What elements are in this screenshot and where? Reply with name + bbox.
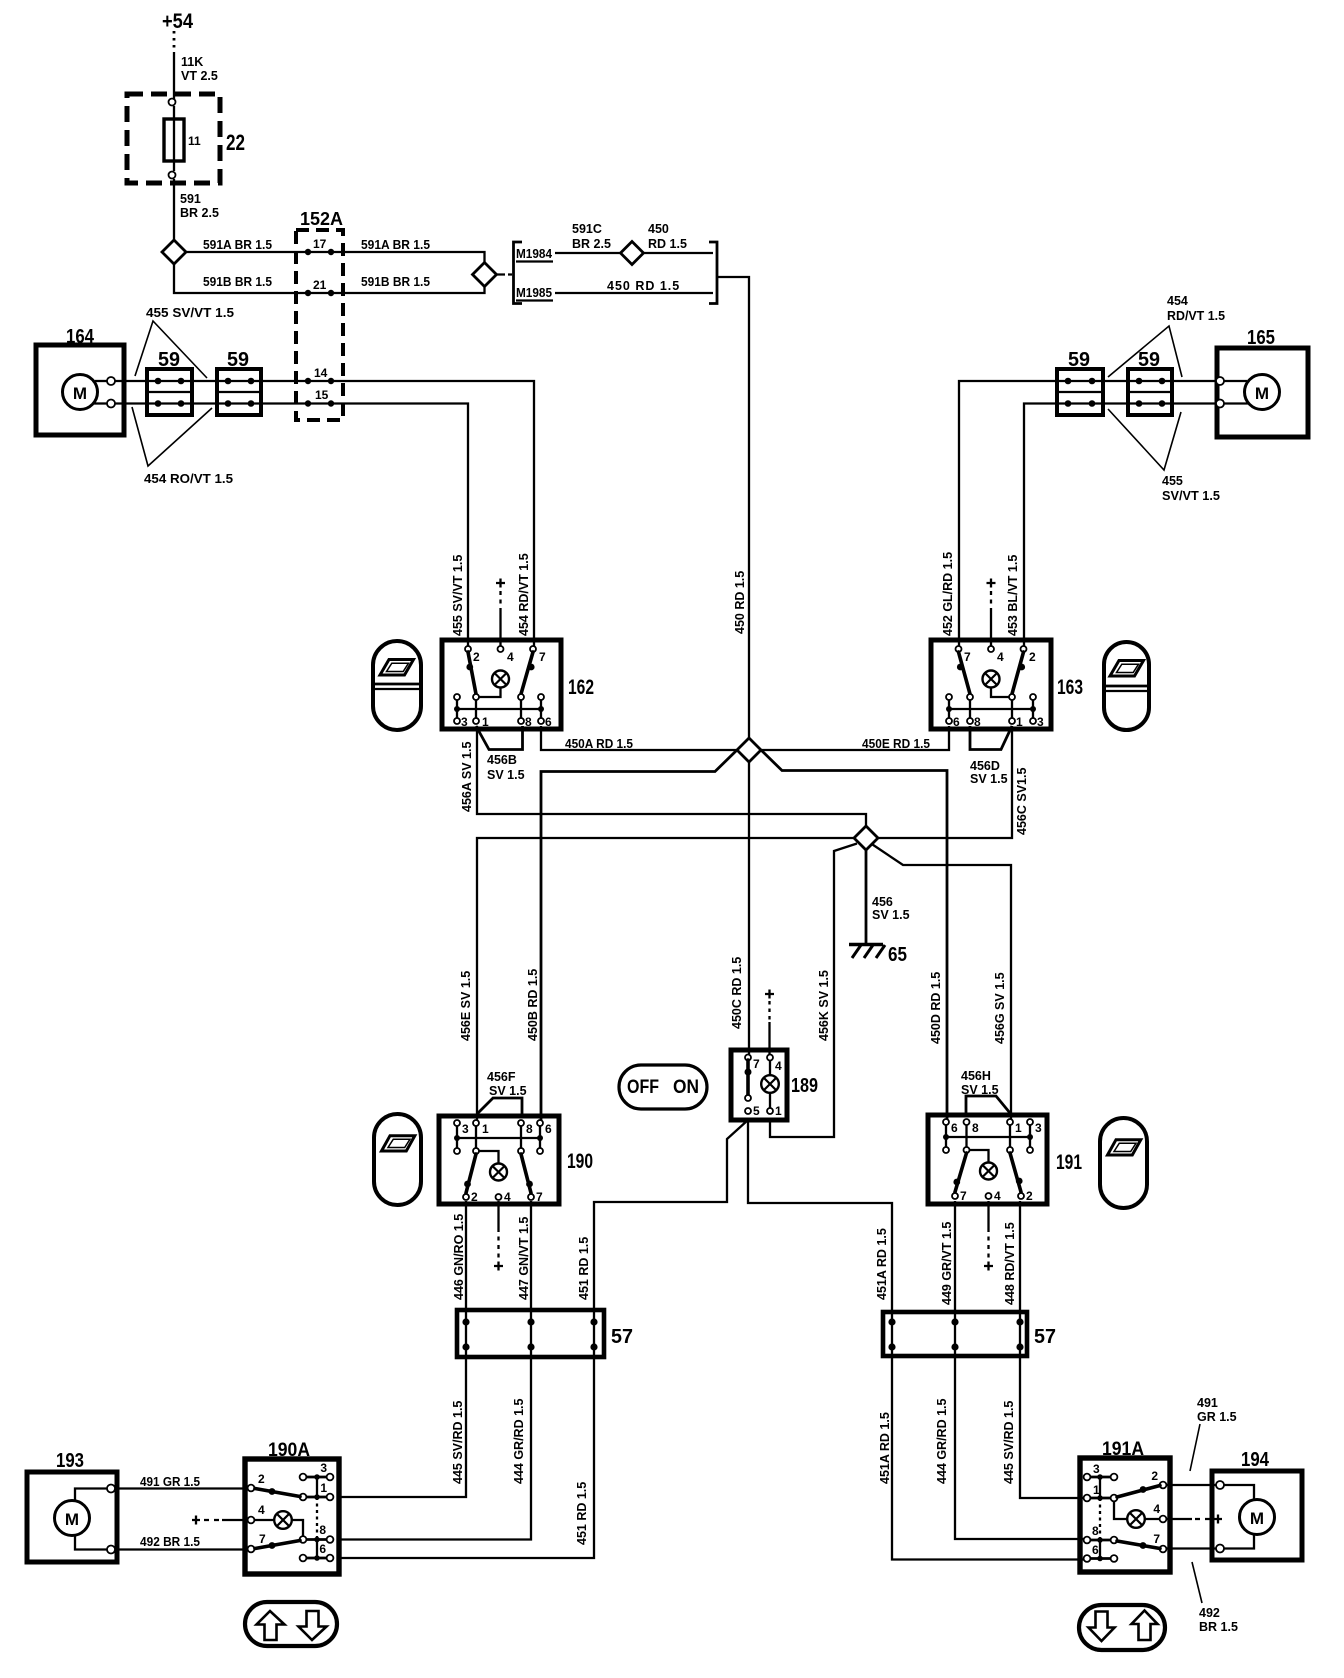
- lamp: [761, 1075, 779, 1093]
- plus feed 191A pin 4: [1166, 1515, 1222, 1524]
- svg-text:455: 455: [1162, 474, 1183, 488]
- switch arm 2: [1010, 1153, 1021, 1192]
- wire 448 RD/VT 1.5 then 445 SV/RD 1.5 (191 pin2 to 191A pin1): [1002, 1201, 1086, 1498]
- svg-text:7: 7: [753, 1057, 760, 1071]
- svg-text:164: 164: [66, 326, 95, 348]
- pin 8: [518, 718, 524, 724]
- wire 456 SV 1.5 to ground: [866, 850, 910, 944]
- wire 450 RD 1.5 main feed: [718, 277, 749, 738]
- pin 5: [745, 1108, 751, 1114]
- wire 591 BR 2.5: [174, 179, 219, 240]
- label 454 RO/VT 1.5 with leader: [132, 407, 233, 486]
- svg-text:22: 22: [226, 130, 245, 155]
- svg-text:3: 3: [320, 1461, 327, 1475]
- pin 7: [248, 1546, 255, 1553]
- wire 452 GL/RD 1.5 right (to 163 pin7): [959, 381, 1216, 646]
- svg-text:8: 8: [974, 715, 981, 729]
- pin 3: [454, 718, 460, 724]
- wire 450B RD 1.5 (node 450 to 190 pin6): [526, 750, 737, 1120]
- switch arm 7: [255, 1541, 300, 1549]
- pin 2: [463, 1194, 469, 1200]
- plus feed above 163 pin 4: [987, 579, 996, 647]
- svg-text:M: M: [1250, 1509, 1264, 1528]
- svg-text:444 GR/RD 1.5: 444 GR/RD 1.5: [512, 1398, 526, 1484]
- svg-text:451A RD 1.5: 451A RD 1.5: [875, 1228, 889, 1300]
- svg-text:1: 1: [482, 715, 489, 729]
- svg-text:6: 6: [1092, 1543, 1099, 1557]
- switch arm 2: [466, 1154, 476, 1193]
- svg-text:8: 8: [1092, 1524, 1099, 1538]
- svg-text:591B BR 1.5: 591B BR 1.5: [361, 275, 430, 289]
- svg-text:450 RD 1.5: 450 RD 1.5: [733, 571, 747, 634]
- svg-text:2: 2: [1026, 1189, 1033, 1203]
- pin 1: [1084, 1495, 1091, 1502]
- window up/down icon left: [245, 1602, 337, 1646]
- wire 447 GN/VT 1.5 then 444 GR/RD 1.5 (190 pin7 to 190A pin8): [340, 1201, 531, 1540]
- svg-text:591A BR 1.5: 591A BR 1.5: [203, 238, 272, 252]
- wire 456H SV 1.5 jumper (191 pin8-pin1): [961, 1069, 1010, 1113]
- svg-text:452 GL/RD 1.5: 452 GL/RD 1.5: [941, 552, 955, 636]
- pin 7: [530, 646, 536, 652]
- svg-text:7: 7: [539, 650, 546, 664]
- motor 164: [36, 326, 124, 435]
- svg-text:3: 3: [1035, 1121, 1042, 1135]
- junction diamond 450: [737, 738, 761, 762]
- pin 7: [952, 1193, 958, 1199]
- switch arm 2: [468, 652, 476, 694]
- svg-text:454: 454: [1167, 294, 1188, 308]
- contact row: [454, 1148, 460, 1154]
- wire 449 GR/VT 1.5 then 444 GR/RD 1.5 (191 pin7 to 191A pin8): [935, 1201, 1086, 1539]
- internal bus: [457, 1137, 540, 1139]
- svg-text:8: 8: [972, 1121, 979, 1135]
- wire 451A RD 1.5 (189 pin5 to right 57): [748, 1120, 892, 1312]
- svg-text:59: 59: [227, 349, 249, 371]
- svg-text:57: 57: [1034, 1326, 1056, 1348]
- svg-text:491: 491: [1197, 1396, 1218, 1410]
- wire 451 RD 1.5 (189 pin5 to left 57): [577, 1120, 748, 1312]
- wire 451A RD 1.5 lower (to 191A pin6): [878, 1312, 1086, 1560]
- wire stub to M1984 bracket: [497, 273, 513, 275]
- wire 456B SV 1.5 jumper (162 pin1-pin8): [476, 726, 525, 782]
- svg-text:M1985: M1985: [516, 285, 552, 300]
- svg-text:449 GR/VT 1.5: 449 GR/VT 1.5: [940, 1222, 954, 1305]
- svg-text:591A BR 1.5: 591A BR 1.5: [361, 238, 430, 252]
- svg-text:445 SV/RD 1.5: 445 SV/RD 1.5: [451, 1401, 465, 1484]
- svg-text:6: 6: [319, 1542, 326, 1556]
- label 454 RD/VT 1.5 right with leader: [1108, 294, 1225, 377]
- svg-text:57: 57: [611, 1326, 633, 1348]
- svg-text:GR 1.5: GR 1.5: [1197, 1410, 1237, 1424]
- connector 57 left: [457, 1310, 633, 1357]
- svg-text:4: 4: [775, 1059, 782, 1073]
- svg-text:6: 6: [545, 1122, 552, 1136]
- svg-text:450C RD 1.5: 450C RD 1.5: [730, 957, 744, 1029]
- pin 4: [1160, 1516, 1167, 1523]
- svg-text:RD 1.5: RD 1.5: [648, 237, 687, 251]
- wire 456C SV 1.5 (163 pin1 to node 456): [878, 726, 1029, 838]
- svg-text:BR 2.5: BR 2.5: [572, 237, 611, 251]
- contact row: [454, 694, 460, 700]
- internal bus: [946, 1136, 1030, 1138]
- svg-text:2: 2: [473, 650, 480, 664]
- splice bracket M1984/M1985: [514, 242, 718, 304]
- pin 4: [986, 1193, 992, 1199]
- wire 450E RD 1.5 (163 pin6 to node 450): [761, 726, 949, 751]
- svg-text:14: 14: [314, 366, 328, 380]
- pin 1: [1009, 718, 1015, 724]
- svg-text:+54: +54: [162, 10, 193, 33]
- svg-text:M: M: [73, 384, 87, 403]
- svg-text:447 GN/VT 1.5: 447 GN/VT 1.5: [517, 1217, 531, 1300]
- window icon 163: [1104, 642, 1149, 730]
- ground 65: [849, 944, 907, 966]
- svg-text:2: 2: [1029, 650, 1036, 664]
- svg-text:456A SV 1.5: 456A SV 1.5: [460, 742, 474, 812]
- svg-text:15: 15: [315, 388, 329, 402]
- plus feed below 191 pin 4: [984, 1201, 993, 1271]
- pin 21: [305, 290, 311, 296]
- pin 4: [248, 1517, 255, 1524]
- svg-text:491 GR 1.5: 491 GR 1.5: [140, 1475, 200, 1489]
- svg-text:163: 163: [1057, 676, 1083, 699]
- window icon 162: [373, 641, 421, 730]
- svg-text:8: 8: [525, 715, 532, 729]
- svg-text:BR 1.5: BR 1.5: [1199, 1620, 1238, 1634]
- svg-text:VT 2.5: VT 2.5: [181, 69, 218, 83]
- svg-text:6: 6: [545, 715, 552, 729]
- pin 2: [1021, 646, 1027, 652]
- pin 6: [538, 718, 544, 724]
- svg-text:2: 2: [258, 1472, 265, 1486]
- svg-text:454 RO/VT 1.5: 454 RO/VT 1.5: [144, 472, 233, 486]
- svg-text:M: M: [65, 1510, 79, 1529]
- svg-text:21: 21: [313, 278, 327, 292]
- row links: [1090, 1477, 1111, 1559]
- svg-text:451 RD 1.5: 451 RD 1.5: [577, 1237, 591, 1300]
- switch arm 7: [959, 652, 971, 694]
- svg-text:2: 2: [471, 1190, 478, 1204]
- svg-text:1: 1: [482, 1122, 489, 1136]
- lamp: [980, 1163, 997, 1180]
- svg-text:7: 7: [536, 1190, 543, 1204]
- junction diamond 456: [854, 826, 878, 850]
- svg-text:OFF: OFF: [627, 1077, 659, 1098]
- svg-text:6: 6: [951, 1121, 958, 1135]
- lamp: [274, 1511, 292, 1529]
- svg-text:59: 59: [1068, 349, 1090, 371]
- svg-text:191A: 191A: [1102, 1439, 1144, 1460]
- connector 59 left A: [147, 349, 192, 415]
- svg-text:4: 4: [1153, 1502, 1160, 1516]
- pin 6: [537, 1120, 543, 1126]
- connector 59 left B: [217, 349, 261, 415]
- svg-text:1: 1: [1015, 1121, 1022, 1135]
- motor 165: [1216, 327, 1308, 437]
- pin 4: [498, 646, 504, 652]
- wire 450 RD 1.5 upper: [644, 222, 714, 253]
- svg-text:4: 4: [994, 1189, 1001, 1203]
- motor 194: [1212, 1449, 1302, 1560]
- wire 492 BR 1.5 (193 to 190A pin7): [113, 1535, 248, 1550]
- svg-text:SV/VT 1.5: SV/VT 1.5: [1162, 489, 1220, 503]
- wire 454 RD/VT 1.5 left (pin14 row to 162 pin7): [115, 381, 534, 646]
- svg-text:RD/VT 1.5: RD/VT 1.5: [1167, 309, 1225, 323]
- plus feed above 162 pin 4: [496, 579, 505, 647]
- label 492 BR 1.5 with leader: [1192, 1562, 1238, 1634]
- internal bus: [949, 708, 1033, 710]
- svg-text:8: 8: [319, 1523, 326, 1537]
- junction diamond 591A/591B: [473, 263, 497, 287]
- wire 450C RD 1.5 (node 450 to 189 pin7): [730, 762, 749, 1054]
- lamp: [983, 671, 1000, 688]
- svg-text:SV 1.5: SV 1.5: [970, 772, 1008, 786]
- wire 591C BR 2.5: [555, 222, 621, 253]
- OFF ON indicator: [619, 1065, 707, 1109]
- svg-text:8: 8: [526, 1122, 533, 1136]
- pin 6: [327, 1555, 334, 1562]
- svg-text:456G SV 1.5: 456G SV 1.5: [993, 972, 1007, 1044]
- contact row: [943, 1147, 949, 1153]
- wire 456E SV 1.5 (node 456 to 190 pin1): [459, 838, 854, 1120]
- window icon 191: [1100, 1118, 1147, 1208]
- svg-text:11: 11: [188, 134, 201, 148]
- svg-text:SV 1.5: SV 1.5: [489, 1084, 527, 1098]
- wire 456K SV 1.5 (node 456 to 189 pin1): [770, 844, 857, 1138]
- lamp: [492, 671, 509, 688]
- svg-text:456C SV1.5: 456C SV1.5: [1015, 768, 1029, 835]
- pin 3: [1084, 1474, 1091, 1481]
- wire 456F SV 1.5 jumper (190 pin1-pin8): [477, 1070, 527, 1114]
- fuse 11 in fusebox 22: [127, 94, 245, 183]
- svg-text:59: 59: [158, 349, 180, 371]
- svg-text:7: 7: [1153, 1532, 1160, 1546]
- switch arm 7: [521, 1154, 531, 1193]
- svg-text:6: 6: [953, 715, 960, 729]
- switch arm 2: [1012, 652, 1024, 694]
- svg-text:456H: 456H: [961, 1069, 991, 1083]
- pin 1: [327, 1494, 334, 1501]
- pin 7: [528, 1194, 534, 1200]
- svg-text:M: M: [1255, 384, 1269, 403]
- internal bus: [457, 708, 541, 710]
- svg-text:ON: ON: [673, 1077, 699, 1098]
- wire 456D SV 1.5 jumper (163 pin1-pin8): [970, 726, 1012, 786]
- svg-text:445 SV/RD 1.5: 445 SV/RD 1.5: [1002, 1401, 1016, 1484]
- svg-text:3: 3: [1093, 1462, 1100, 1476]
- pin 1: [767, 1108, 773, 1114]
- pin 6: [943, 1119, 949, 1125]
- pin 8: [964, 1119, 970, 1125]
- switch 191: [928, 1115, 1082, 1204]
- svg-text:591B BR 1.5: 591B BR 1.5: [203, 275, 272, 289]
- svg-text:17: 17: [313, 237, 327, 251]
- contact circles: [1111, 1474, 1118, 1481]
- svg-text:1: 1: [320, 1481, 327, 1495]
- svg-text:BR 2.5: BR 2.5: [180, 206, 219, 220]
- svg-text:456K SV 1.5: 456K SV 1.5: [817, 970, 831, 1041]
- svg-text:456B: 456B: [487, 753, 517, 767]
- svg-text:190: 190: [567, 1150, 593, 1173]
- svg-text:454 RD/VT 1.5: 454 RD/VT 1.5: [517, 553, 531, 636]
- svg-text:4: 4: [997, 650, 1004, 664]
- svg-text:1: 1: [1016, 715, 1023, 729]
- wire 191A pin2 to motor 194: [1166, 1484, 1216, 1486]
- svg-text:455 SV/VT 1.5: 455 SV/VT 1.5: [146, 306, 234, 320]
- svg-text:193: 193: [56, 1450, 84, 1472]
- svg-text:492: 492: [1199, 1606, 1220, 1620]
- svg-text:456F: 456F: [487, 1070, 516, 1084]
- svg-text:M1984: M1984: [516, 246, 553, 261]
- motor 193: [27, 1450, 117, 1562]
- svg-text:444 GR/RD 1.5: 444 GR/RD 1.5: [935, 1398, 949, 1484]
- switch 190A: [245, 1440, 339, 1574]
- svg-text:2: 2: [1151, 1469, 1158, 1483]
- svg-text:450E RD 1.5: 450E RD 1.5: [862, 737, 930, 751]
- switch 189 interior light/central: [731, 1050, 818, 1120]
- svg-text:7: 7: [259, 1532, 266, 1546]
- svg-text:591C: 591C: [572, 222, 602, 236]
- wire 456A SV 1.5 (162 pin1 to node 456): [460, 726, 866, 826]
- pin 8: [967, 718, 973, 724]
- svg-text:162: 162: [568, 676, 594, 699]
- switch arm: [746, 1060, 750, 1095]
- internal bus: [1099, 1477, 1101, 1559]
- wire 450A RD 1.5 (162 pin6 to node 450): [541, 726, 737, 751]
- wire 11K VT 2.5: [174, 52, 218, 101]
- switch arm 7: [1117, 1541, 1160, 1549]
- pin 4: [496, 1194, 502, 1200]
- svg-text:450A RD 1.5: 450A RD 1.5: [565, 737, 633, 751]
- pin 6: [946, 718, 952, 724]
- window down/up icon right: [1079, 1605, 1165, 1650]
- pin 7: [745, 1055, 751, 1061]
- svg-text:4: 4: [258, 1503, 265, 1517]
- svg-text:450B RD 1.5: 450B RD 1.5: [526, 969, 540, 1041]
- svg-text:4: 4: [504, 1190, 511, 1204]
- connector 59 right C: [1057, 349, 1103, 415]
- wire 591A BR 1.5: [186, 238, 485, 263]
- switch arm 7: [521, 652, 533, 694]
- plus feed 190A pin 4: [192, 1516, 248, 1525]
- pin 17: [305, 249, 311, 255]
- pin 4: [988, 646, 994, 652]
- contact row: [946, 694, 952, 700]
- svg-text:SV 1.5: SV 1.5: [961, 1083, 999, 1097]
- switch 162: [442, 640, 594, 729]
- svg-text:453 BL/VT 1.5: 453 BL/VT 1.5: [1006, 555, 1020, 636]
- wire 453 BL/VT 1.5 right (to 163 pin2): [1024, 404, 1216, 647]
- lamp: [1127, 1510, 1145, 1528]
- switch 190: [439, 1116, 593, 1204]
- svg-text:7: 7: [964, 650, 971, 664]
- wire 450 RD 1.5 (M1985 row): [555, 279, 713, 293]
- wire 456G SV 1.5 (node 456 to 191 pin1): [873, 845, 1012, 1121]
- plus feed below 190 pin 4: [494, 1201, 503, 1271]
- svg-text:455 SV/VT 1.5: 455 SV/VT 1.5: [451, 555, 465, 636]
- svg-text:451A RD 1.5: 451A RD 1.5: [878, 1412, 892, 1484]
- wire 446 GN/RO 1.5 then 445 SV/RD 1.5 (190 pin2 to 190A pin1): [340, 1201, 466, 1497]
- wire 450D RD 1.5 (node 450 to 191 pin6): [761, 750, 947, 1120]
- label 491 GR 1.5 with leader: [1190, 1396, 1237, 1471]
- pin 4: [767, 1055, 773, 1061]
- svg-text:456: 456: [872, 895, 893, 909]
- pin 7: [1160, 1546, 1167, 1553]
- svg-text:456E SV 1.5: 456E SV 1.5: [459, 971, 473, 1041]
- pin 3: [1030, 718, 1036, 724]
- svg-text:189: 189: [791, 1075, 818, 1097]
- svg-text:1: 1: [775, 1104, 782, 1118]
- lamp: [490, 1164, 507, 1181]
- wire 491 GR 1.5 (193 to 190A pin2): [113, 1475, 248, 1489]
- wire 191A pin7 to motor 194: [1166, 1547, 1216, 1549]
- svg-text:65: 65: [888, 944, 907, 966]
- svg-text:3: 3: [1037, 715, 1044, 729]
- connector 59 right D: [1128, 349, 1172, 415]
- pin 2: [248, 1485, 255, 1492]
- connector 57 right: [883, 1312, 1056, 1356]
- pin 3: [454, 1120, 460, 1126]
- contact circles: [300, 1474, 307, 1481]
- svg-text:59: 59: [1138, 349, 1160, 371]
- svg-text:451 RD 1.5: 451 RD 1.5: [575, 1482, 589, 1545]
- pin 3: [1027, 1119, 1033, 1125]
- pin 2: [1160, 1482, 1167, 1489]
- pin 8: [327, 1536, 334, 1543]
- switch 163: [931, 640, 1083, 729]
- pin 7: [956, 646, 962, 652]
- svg-text:7: 7: [960, 1189, 967, 1203]
- junction diamond 591C/450: [621, 242, 644, 265]
- svg-text:492 BR 1.5: 492 BR 1.5: [140, 1535, 200, 1549]
- pin 8: [1084, 1537, 1091, 1544]
- pin 1: [1007, 1119, 1013, 1125]
- svg-text:450 RD 1.5: 450 RD 1.5: [607, 279, 680, 293]
- svg-text:11K: 11K: [181, 55, 203, 69]
- pin 15: [305, 400, 311, 406]
- svg-text:456D: 456D: [970, 759, 1000, 773]
- pin 8: [518, 1120, 524, 1126]
- svg-text:448 RD/VT 1.5: 448 RD/VT 1.5: [1003, 1222, 1017, 1305]
- svg-text:SV 1.5: SV 1.5: [487, 768, 525, 782]
- switch arm 7: [955, 1153, 967, 1192]
- junction diamond 591: [162, 240, 186, 264]
- svg-text:5: 5: [753, 1104, 760, 1118]
- pin 2: [465, 646, 471, 652]
- svg-text:SV 1.5: SV 1.5: [872, 908, 910, 922]
- label 455 SV/VT 1.5 with leader: [135, 306, 234, 378]
- pin 3: [327, 1474, 334, 1481]
- row links: [306, 1477, 327, 1558]
- svg-text:446 GN/RO 1.5: 446 GN/RO 1.5: [452, 1214, 466, 1300]
- svg-text:152A: 152A: [300, 209, 343, 229]
- wire 455 SV/VT 1.5 left (pin15 row to 162 pin2): [115, 404, 468, 647]
- node +54 supply: [162, 10, 193, 52]
- svg-text:450: 450: [648, 222, 669, 236]
- svg-text:3: 3: [461, 715, 468, 729]
- label 455 SV/VT 1.5 right with leader: [1108, 409, 1220, 503]
- wire 591B BR 1.5: [174, 264, 485, 293]
- svg-text:194: 194: [1241, 1449, 1270, 1471]
- connector 152A: [296, 209, 343, 420]
- svg-text:190A: 190A: [268, 1440, 310, 1461]
- pin 14: [305, 378, 311, 384]
- svg-text:591: 591: [180, 192, 201, 206]
- svg-text:165: 165: [1247, 327, 1275, 349]
- svg-text:3: 3: [462, 1122, 469, 1136]
- pin 1: [473, 718, 479, 724]
- plus feed above 189 pin 4: [765, 990, 774, 1055]
